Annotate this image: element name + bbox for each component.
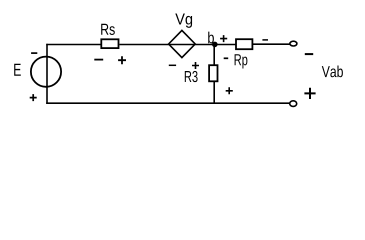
Vab polarity minus (large): [305, 53, 313, 55]
E polarity minus: [31, 52, 37, 54]
terminal a (top right): [290, 41, 297, 46]
voltage source E circle: [31, 57, 61, 87]
wire top: Rs through Vg diamond to node b and Rp: [120, 44, 237, 46]
resistor Rs: [101, 39, 118, 48]
dependent source Vg diamond: [169, 30, 196, 57]
resistor R3: [209, 65, 217, 81]
wire: node b down to R3: [213, 44, 215, 66]
label b: [208, 32, 214, 44]
label Rs: [101, 24, 115, 35]
Vg polarity plus: [192, 62, 199, 69]
label Vg: [175, 13, 192, 27]
label E: [14, 64, 21, 76]
node b junction dot: [212, 42, 218, 48]
wire bottom: E to terminal b: [46, 102, 290, 104]
Vab polarity plus (large): [304, 88, 315, 99]
R3 polarity plus: [226, 87, 233, 94]
E polarity plus: [30, 94, 37, 101]
wire top: Rp to terminal a: [253, 43, 290, 45]
terminal b (bottom right): [290, 101, 297, 107]
label R3: [185, 71, 198, 82]
label Rp: [235, 54, 248, 68]
R3 polarity minus: [224, 57, 229, 59]
wire: E source vertical lead: [46, 44, 48, 104]
node b polarity plus: [220, 35, 227, 42]
Rp polarity minus: [262, 39, 268, 41]
resistor Rp: [236, 39, 252, 49]
Rs polarity plus: [118, 56, 126, 64]
wire: R3 down to bottom wire: [213, 82, 215, 104]
label Vab: [322, 66, 343, 78]
Vg polarity minus: [169, 64, 176, 66]
wire top: E to Rs: [46, 44, 101, 46]
Rs polarity minus: [94, 59, 103, 61]
